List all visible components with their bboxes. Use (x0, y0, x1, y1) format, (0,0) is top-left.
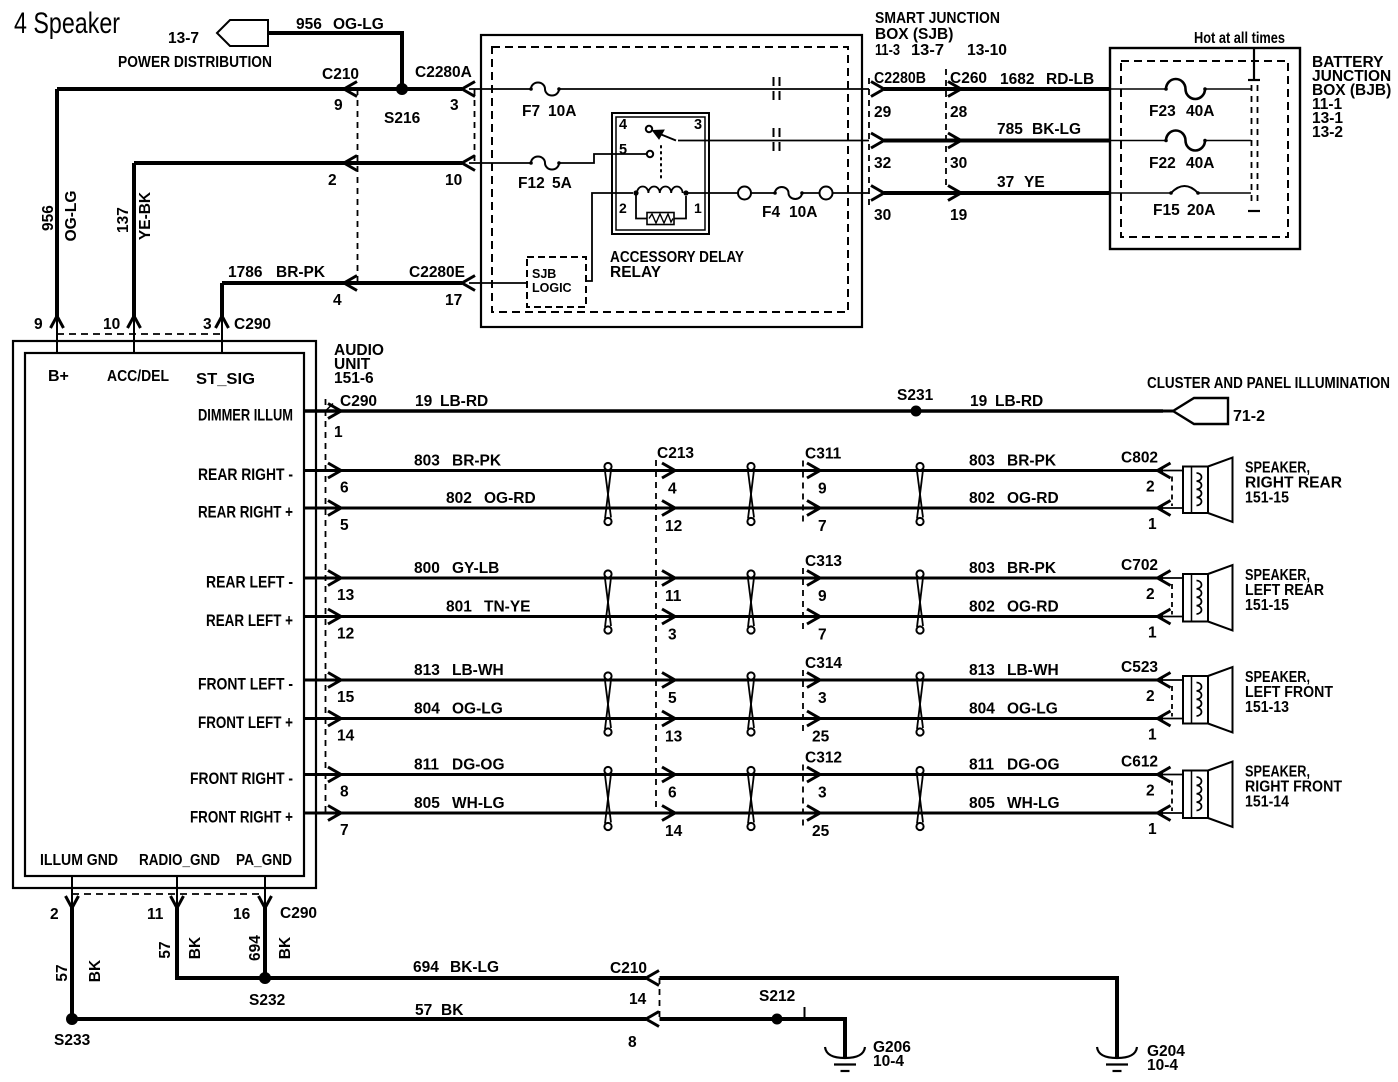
svg-text:10A: 10A (548, 103, 576, 120)
svg-text:S232: S232 (249, 992, 285, 1009)
wire 19 LB-RD dimmer illum (304, 409, 1163, 413)
svg-text:S212: S212 (759, 988, 795, 1005)
BJB hot feed line (1253, 48, 1255, 79)
wire 813 LB-WH (left front -) (304, 679, 1163, 682)
svg-text:805: 805 (969, 795, 995, 812)
svg-text:151-14: 151-14 (1245, 794, 1289, 811)
svg-text:13: 13 (665, 729, 683, 746)
svg-text:OG-RD: OG-RD (1007, 490, 1059, 507)
C213 arrows (662, 673, 675, 688)
connector C290 right dashed line (325, 399, 327, 813)
C290 arrows (328, 463, 341, 478)
svg-text:151-13: 151-13 (1245, 699, 1289, 716)
audio unit inner box (25, 353, 304, 876)
svg-text:BR-PK: BR-PK (1007, 453, 1057, 470)
svg-text:10A: 10A (789, 204, 817, 221)
C290 bottom dashed line, pins 2/11/16 (72, 893, 265, 895)
svg-text:9: 9 (34, 316, 43, 333)
C2280B arrows pins 29/32/30 (871, 82, 884, 97)
svg-text:3: 3 (203, 316, 212, 333)
wire 803 BR-PK (right rear -) (304, 469, 1163, 472)
svg-text:29: 29 (874, 104, 892, 121)
svg-text:11-3: 11-3 (875, 42, 900, 59)
svg-text:811: 811 (969, 757, 994, 774)
svg-text:805: 805 (414, 795, 440, 812)
svg-text:BK: BK (87, 959, 104, 982)
svg-text:REAR RIGHT +: REAR RIGHT + (198, 504, 293, 522)
svg-text:813: 813 (414, 662, 440, 679)
svg-text:956: 956 (40, 205, 57, 231)
svg-text:804: 804 (969, 701, 995, 718)
svg-text:30: 30 (874, 207, 891, 224)
svg-text:5A: 5A (552, 175, 572, 192)
svg-text:S231: S231 (897, 387, 934, 404)
svg-text:ILLUM GND: ILLUM GND (40, 852, 118, 869)
connector C313 dashed (802, 568, 804, 634)
svg-text:LB-RD: LB-RD (440, 393, 488, 410)
smart junction box inner dashed (492, 47, 848, 312)
smart junction box outer (481, 35, 862, 327)
svg-text:C210: C210 (322, 66, 359, 83)
in-line break on F7 wire (773, 77, 775, 101)
C290 top dashed line and pins 9/10/3 (57, 333, 222, 335)
svg-text:1: 1 (1148, 821, 1157, 838)
svg-text:TN-YE: TN-YE (484, 599, 531, 616)
svg-text:9: 9 (334, 97, 343, 114)
svg-text:25: 25 (812, 823, 830, 840)
svg-text:OG-RD: OG-RD (484, 490, 536, 507)
C260 arrows pins 28/30/19 (948, 82, 961, 97)
svg-text:REAR LEFT -: REAR LEFT - (206, 574, 293, 592)
svg-text:1: 1 (334, 424, 343, 441)
svg-text:802: 802 (969, 599, 995, 616)
wire RADIO_GND 57 BK (176, 876, 178, 906)
wire 1786 BR-PK y=283 (222, 281, 462, 285)
svg-text:C2280E: C2280E (409, 264, 465, 281)
splice S232 (259, 972, 271, 984)
C290 arrows (328, 673, 341, 688)
svg-text:OG-LG: OG-LG (333, 16, 384, 33)
svg-text:16: 16 (233, 906, 251, 923)
svg-text:4 Speaker: 4 Speaker (14, 7, 120, 40)
svg-text:811: 811 (414, 757, 439, 774)
wire 805 WH-LG (right front +) (304, 812, 1163, 815)
relay actuator dotted link (660, 146, 662, 180)
wire 802 OG-RD (right rear +) (304, 507, 1163, 510)
svg-text:2: 2 (1146, 783, 1155, 800)
svg-text:4: 4 (333, 292, 342, 309)
svg-text:5: 5 (340, 517, 349, 534)
svg-text:12: 12 (665, 518, 682, 535)
svg-text:57: 57 (415, 1002, 432, 1019)
twisted pair symbols (604, 463, 611, 470)
svg-text:13: 13 (337, 587, 355, 604)
svg-text:17: 17 (445, 292, 462, 309)
svg-text:F15: F15 (1153, 202, 1180, 219)
svg-text:PA_GND: PA_GND (236, 852, 292, 869)
wire 57 BK to C210 (72, 1017, 646, 1021)
svg-text:C314: C314 (805, 655, 842, 672)
svg-text:DG-OG: DG-OG (1007, 757, 1060, 774)
svg-text:13-7: 13-7 (168, 30, 199, 47)
svg-text:2: 2 (50, 906, 59, 923)
svg-text:C523: C523 (1121, 659, 1158, 676)
svg-text:SJB: SJB (532, 267, 556, 281)
splice S233 (66, 1013, 78, 1025)
svg-text:WH-LG: WH-LG (452, 795, 505, 812)
svg-text:9: 9 (818, 481, 827, 498)
svg-text:1: 1 (694, 200, 702, 216)
wire relay pin 3 to SJB edge (678, 140, 869, 142)
svg-text:2: 2 (1146, 688, 1155, 705)
wire 137 YE-BK y=163 (134, 161, 462, 165)
svg-text:POWER DISTRIBUTION: POWER DISTRIBUTION (118, 54, 272, 71)
svg-text:DIMMER ILLUM: DIMMER ILLUM (198, 407, 293, 425)
svg-text:6: 6 (340, 480, 349, 497)
fuse F23 40A (1110, 88, 1166, 90)
svg-text:11: 11 (147, 906, 164, 923)
svg-text:13-10: 13-10 (967, 42, 1007, 59)
C213 arrows (662, 571, 675, 586)
svg-text:1: 1 (1148, 625, 1157, 642)
svg-text:FRONT LEFT +: FRONT LEFT + (198, 714, 293, 732)
accessory delay relay box (612, 113, 709, 234)
svg-text:151-6: 151-6 (334, 370, 374, 387)
wire 811 DG-OG (right front -) (304, 773, 1163, 776)
svg-text:BK: BK (187, 936, 204, 959)
svg-text:956: 956 (296, 16, 322, 33)
speaker right rear (1158, 470, 1184, 472)
svg-text:C802: C802 (1121, 450, 1158, 467)
C213 arrows (662, 767, 675, 782)
svg-text:BK: BK (441, 1002, 464, 1019)
svg-text:2: 2 (619, 200, 627, 216)
svg-text:F7: F7 (522, 103, 540, 120)
svg-text:803: 803 (969, 560, 995, 577)
connector C2280B dashed (868, 78, 870, 207)
svg-text:3: 3 (818, 785, 827, 802)
ground G206 (825, 1047, 865, 1058)
svg-text:8: 8 (340, 784, 349, 801)
svg-text:804: 804 (414, 701, 440, 718)
svg-text:11: 11 (665, 588, 682, 605)
twisted pair symbols (604, 672, 611, 679)
relay pin 4 contact (646, 126, 652, 132)
svg-text:5: 5 (668, 690, 677, 707)
svg-text:803: 803 (414, 453, 440, 470)
svg-text:7: 7 (818, 627, 827, 644)
svg-text:813: 813 (969, 662, 995, 679)
svg-text:19: 19 (970, 393, 988, 410)
svg-text:137: 137 (115, 207, 132, 233)
twisted pair symbols (604, 570, 611, 577)
svg-text:BOX (SJB): BOX (SJB) (875, 26, 953, 43)
speaker right front (1158, 774, 1184, 776)
svg-text:10: 10 (103, 316, 120, 333)
speaker left rear (1158, 577, 1184, 579)
svg-text:7: 7 (340, 822, 349, 839)
relay pin 5 contact (647, 151, 653, 157)
in-line break on relay pin3 wire (773, 128, 775, 152)
svg-text:14: 14 (665, 823, 683, 840)
connector C311 dashed (802, 461, 804, 526)
svg-text:C2280A: C2280A (415, 64, 472, 81)
svg-text:1682: 1682 (1000, 71, 1034, 88)
svg-text:15: 15 (337, 689, 355, 706)
svg-text:40A: 40A (1186, 103, 1214, 120)
svg-text:20A: 20A (1187, 202, 1215, 219)
wire PA_GND 694 BK (264, 876, 266, 906)
svg-text:800: 800 (414, 560, 440, 577)
svg-text:REAR LEFT +: REAR LEFT + (206, 612, 293, 630)
svg-text:BR-PK: BR-PK (276, 264, 326, 281)
svg-text:C313: C313 (805, 553, 842, 570)
svg-text:OG-LG: OG-LG (1007, 701, 1058, 718)
svg-text:C2280B: C2280B (874, 70, 926, 87)
relay switch arm to pin 3 (655, 132, 676, 141)
connector C312 dashed (802, 765, 804, 831)
wire 1682 RD-LB (884, 87, 1110, 91)
svg-text:4: 4 (619, 117, 627, 133)
svg-text:694: 694 (413, 959, 439, 976)
svg-text:OG-LG: OG-LG (452, 701, 503, 718)
svg-text:BK-LG: BK-LG (1032, 121, 1081, 138)
wire SJB logic to relay coil pin 2 (586, 193, 633, 281)
SJB LOGIC box (527, 257, 586, 307)
svg-text:RELAY: RELAY (610, 264, 662, 281)
svg-text:2: 2 (328, 172, 337, 189)
ground G204 (1097, 1047, 1137, 1058)
wire 956 vertical to audio unit B+ (55, 89, 59, 318)
connector C314 dashed (802, 670, 804, 736)
svg-text:YE: YE (1024, 174, 1045, 191)
svg-text:DG-OG: DG-OG (452, 757, 505, 774)
fuse F22 40A (1110, 140, 1166, 142)
svg-text:Hot at all times: Hot at all times (1194, 30, 1285, 47)
svg-text:19: 19 (415, 393, 433, 410)
wire 57 BK to S212 and G206 (660, 1019, 846, 1057)
fuse F7 10A (469, 88, 531, 90)
svg-text:ACC/DEL: ACC/DEL (107, 368, 169, 385)
svg-text:1: 1 (1148, 516, 1157, 533)
svg-text:28: 28 (950, 104, 968, 121)
svg-text:C290: C290 (340, 393, 377, 410)
svg-text:C612: C612 (1121, 754, 1158, 771)
svg-text:BR-PK: BR-PK (452, 453, 502, 470)
svg-text:13-7: 13-7 (911, 42, 944, 59)
svg-text:F22: F22 (1149, 155, 1176, 172)
C210 arrow pin 4 (344, 276, 357, 291)
svg-text:802: 802 (446, 490, 472, 507)
svg-text:37: 37 (997, 174, 1014, 191)
svg-text:REAR RIGHT -: REAR RIGHT - (198, 466, 293, 484)
svg-text:801: 801 (446, 599, 472, 616)
svg-text:5: 5 (619, 142, 627, 158)
svg-text:FRONT RIGHT +: FRONT RIGHT + (190, 809, 293, 827)
svg-text:RADIO_GND: RADIO_GND (139, 852, 220, 869)
wire C2280E to SJB logic (469, 282, 527, 284)
svg-text:151-15: 151-15 (1245, 490, 1289, 507)
connector C260 dashed (945, 69, 947, 185)
battery junction box inner dashed (1121, 61, 1288, 237)
C210 arrow pin 2 (344, 156, 357, 171)
BJB bus bar dashed (1251, 85, 1253, 206)
svg-text:C312: C312 (805, 750, 842, 767)
svg-text:1786: 1786 (228, 264, 263, 281)
battery junction box outer (1110, 48, 1300, 249)
svg-text:F23: F23 (1149, 103, 1176, 120)
wire 800 GY-LB (left rear -) (304, 577, 1163, 580)
power distribution connector 13-7 (217, 20, 268, 46)
svg-text:YE-BK: YE-BK (137, 191, 154, 240)
svg-text:ST_SIG: ST_SIG (196, 371, 255, 388)
svg-text:WH-LG: WH-LG (1007, 795, 1060, 812)
svg-text:57: 57 (157, 941, 174, 958)
wire 804 OG-LG (left front +) (304, 717, 1163, 720)
svg-text:RD-LB: RD-LB (1046, 71, 1094, 88)
speaker left front (1158, 679, 1184, 681)
svg-text:S233: S233 (54, 1032, 91, 1049)
svg-text:FRONT LEFT -: FRONT LEFT - (198, 676, 293, 694)
C290 arrows (328, 571, 341, 586)
svg-text:1: 1 (1148, 727, 1157, 744)
svg-text:19: 19 (950, 207, 968, 224)
wire 956 OG-LG from power distribution (268, 33, 402, 89)
svg-text:F4: F4 (762, 204, 780, 221)
twisted pair symbols (604, 767, 611, 774)
fuse F15 20A (1110, 192, 1171, 194)
svg-text:3: 3 (450, 97, 459, 114)
svg-text:C290: C290 (280, 905, 317, 922)
svg-text:C702: C702 (1121, 557, 1158, 574)
svg-text:3: 3 (694, 117, 702, 133)
svg-text:FRONT RIGHT -: FRONT RIGHT - (190, 770, 293, 788)
splice S231 (911, 406, 922, 417)
svg-text:2: 2 (1146, 586, 1155, 603)
svg-text:4: 4 (668, 481, 677, 498)
svg-text:SMART JUNCTION: SMART JUNCTION (875, 10, 1000, 27)
svg-text:CLUSTER AND PANEL ILLUMINATION: CLUSTER AND PANEL ILLUMINATION (1147, 375, 1390, 392)
svg-text:BK: BK (277, 936, 294, 959)
svg-text:C213: C213 (657, 445, 694, 462)
svg-text:BR-PK: BR-PK (1007, 560, 1057, 577)
connector C2280A dashed line (474, 89, 476, 163)
C2280A arrow pin 3 (462, 82, 475, 97)
fuse F12 5A (469, 162, 531, 164)
svg-text:10: 10 (445, 172, 462, 189)
wire 694 BK-LG (265, 976, 646, 980)
svg-text:151-15: 151-15 (1245, 597, 1289, 614)
svg-text:C290: C290 (234, 316, 271, 333)
svg-text:LOGIC: LOGIC (532, 281, 572, 295)
svg-text:GY-LB: GY-LB (452, 560, 499, 577)
wire 956 OG-LG main run y=89 (57, 87, 462, 91)
svg-text:6: 6 (668, 785, 677, 802)
audio unit outer box (13, 341, 316, 888)
wire 694 BK-LG to G204 (660, 978, 1118, 1057)
svg-text:LB-RD: LB-RD (995, 393, 1043, 410)
svg-text:10-4: 10-4 (1147, 1057, 1178, 1074)
svg-text:OG-LG: OG-LG (63, 191, 80, 242)
svg-text:S216: S216 (384, 110, 421, 127)
svg-text:3: 3 (818, 690, 827, 707)
wire 37 YE (884, 191, 1110, 195)
svg-text:9: 9 (818, 588, 827, 605)
svg-text:30: 30 (950, 155, 967, 172)
svg-text:57: 57 (54, 964, 71, 981)
svg-text:C210: C210 (610, 960, 647, 977)
C213 arrows (662, 463, 675, 478)
svg-text:32: 32 (874, 155, 891, 172)
wire ILLUM GND 57 BK (71, 876, 73, 906)
wire 801 TN-YE (left rear +) (304, 615, 1163, 618)
cluster and panel illumination connector 71-2 (1163, 410, 1173, 413)
svg-text:BK-LG: BK-LG (450, 959, 499, 976)
connector C210 dashed line (top) (357, 89, 359, 283)
svg-text:C311: C311 (805, 446, 842, 463)
svg-text:71-2: 71-2 (1233, 408, 1265, 425)
svg-text:3: 3 (668, 627, 677, 644)
svg-text:694: 694 (247, 935, 264, 961)
svg-text:LB-WH: LB-WH (1007, 662, 1059, 679)
splice S212 (772, 1014, 783, 1025)
svg-text:10-4: 10-4 (873, 1053, 904, 1070)
C210 arrow pin 9 (344, 82, 357, 97)
splice S216 (396, 83, 408, 95)
svg-text:12: 12 (337, 626, 354, 643)
C2280A arrow pin 10 (462, 156, 475, 171)
svg-text:OG-RD: OG-RD (1007, 599, 1059, 616)
svg-text:785: 785 (997, 121, 1023, 138)
svg-text:8: 8 (628, 1034, 637, 1051)
svg-text:14: 14 (337, 728, 355, 745)
svg-text:13-2: 13-2 (1312, 124, 1343, 141)
wire relay pin 1 through F4 (688, 192, 738, 194)
svg-text:14: 14 (629, 991, 647, 1008)
svg-text:2: 2 (1146, 479, 1155, 496)
svg-text:802: 802 (969, 490, 995, 507)
svg-text:7: 7 (818, 518, 827, 535)
svg-text:803: 803 (969, 453, 995, 470)
svg-text:B+: B+ (48, 368, 69, 385)
svg-text:40A: 40A (1186, 155, 1214, 172)
svg-text:25: 25 (812, 729, 830, 746)
relay coil pins 2-1 (633, 190, 638, 195)
svg-text:LB-WH: LB-WH (452, 662, 504, 679)
connector C213 long dashed line (655, 460, 657, 812)
svg-text:F12: F12 (518, 175, 545, 192)
relay parallel resistor (636, 193, 647, 219)
C290 arrows (328, 767, 341, 782)
wire 785 BK-LG (884, 139, 1110, 143)
